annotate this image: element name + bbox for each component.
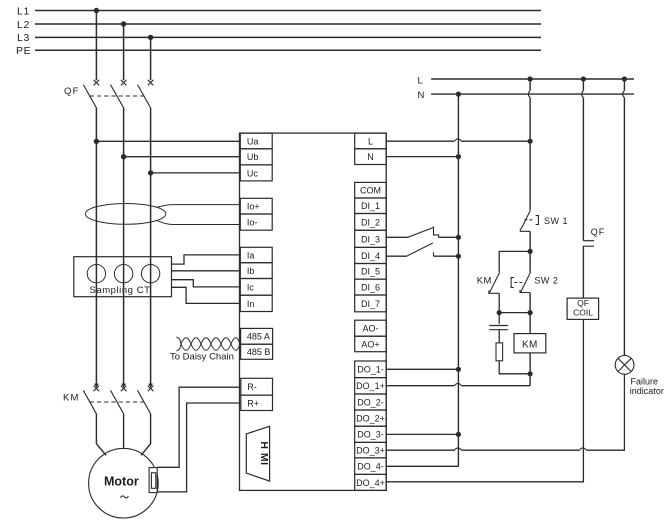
CT ring phase B	[114, 265, 132, 283]
terminal DI_5	[355, 264, 387, 280]
switch on DI_4 (NO contact)	[407, 243, 434, 256]
svg-text:L2: L2	[17, 19, 30, 31]
KM pole 3 blade	[138, 390, 151, 414]
terminal COM	[355, 182, 387, 198]
junction dot L to rail C	[581, 76, 586, 81]
contact KM auxiliary (NO)	[489, 272, 500, 293]
arrowhead phase C	[148, 384, 153, 388]
wire R- to thermistor	[157, 387, 240, 467]
terminal DO_3-	[355, 426, 387, 442]
svg-text:SW 1: SW 1	[544, 216, 568, 226]
thermistor outer box on motor	[149, 468, 157, 493]
KM pole 3 contact X	[148, 386, 154, 392]
wire CT out to Ia	[172, 255, 241, 264]
svg-text:R-: R-	[247, 382, 256, 392]
svg-text:PE: PE	[16, 45, 31, 57]
svg-text:To Daisy Chain: To Daisy Chain	[170, 352, 234, 363]
wire L terminal to rail B (hops rail A)	[386, 139, 530, 141]
wire KM latch branch bottom	[498, 293, 500, 312]
CT ring phase A	[87, 265, 105, 283]
contactor KM (3-pole)	[83, 386, 153, 414]
wire DO_4- to rail A end	[386, 465, 458, 467]
svg-text:KM: KM	[522, 339, 538, 350]
CT ring phase C	[141, 265, 159, 283]
svg-text:H MI: H MI	[258, 441, 270, 465]
svg-text:KM: KM	[477, 276, 492, 287]
protection relay main box U1	[240, 133, 387, 490]
terminal L	[355, 133, 387, 149]
node L1	[17, 5, 541, 17]
KM pole 2 blade	[111, 390, 124, 414]
wire L2	[35, 23, 541, 25]
wire DO_3+ to failure lamp (hops rail A and rail C)	[386, 374, 624, 450]
wire to capacitor	[498, 313, 500, 324]
wire through CT phase C	[150, 257, 152, 297]
junction dot rail B / L terminal wire	[528, 139, 533, 144]
wire capacitor to resistor	[498, 330, 500, 343]
terminal DO_4+	[355, 474, 387, 490]
wire through CT phase B	[123, 257, 125, 297]
contact QF auxiliary	[583, 241, 594, 247]
pushbutton SW1 (NC)	[520, 210, 538, 231]
wire CT out to Ib	[172, 270, 241, 272]
wire rail A (N rail)	[457, 94, 459, 466]
svg-text:DO_2-: DO_2-	[357, 397, 384, 407]
svg-text:AO-: AO-	[362, 324, 378, 334]
terminal Uc	[240, 165, 272, 181]
wire CT down phase A to KM	[95, 297, 97, 385]
resistor R1 (RC snubber)	[496, 343, 503, 361]
wire L1 drop to QF pole 1	[95, 11, 97, 81]
junction dot rail A / DI_3	[456, 235, 461, 240]
svg-text:N: N	[418, 90, 425, 101]
svg-text:Ic: Ic	[247, 282, 255, 292]
svg-text:485 B: 485 B	[247, 347, 271, 357]
HMI connector	[246, 426, 269, 481]
wire QF contact to QF coil	[582, 246, 584, 298]
wire QF pole 3 down to CT	[150, 108, 152, 257]
wire R+ to thermistor	[157, 403, 240, 492]
wire parallel node bar	[499, 312, 530, 314]
junction dot L3 tap	[148, 35, 153, 40]
terminal DI_4	[355, 247, 387, 263]
svg-text:L: L	[418, 76, 423, 87]
junction dot L1 tap	[94, 8, 99, 13]
svg-text:Io-: Io-	[247, 218, 258, 228]
wire L control line	[431, 78, 634, 80]
terminal DO_1+	[355, 378, 387, 394]
junction dot Ua tap	[94, 139, 99, 144]
node L3	[17, 32, 541, 44]
svg-text:In: In	[247, 299, 255, 309]
svg-text:Io+: Io+	[247, 202, 260, 212]
KM linkage dashed bar	[90, 401, 144, 403]
junction dot rail B / KM branch	[528, 249, 533, 254]
node N (control)	[418, 90, 635, 101]
wire L3 drop to QF pole 3	[150, 37, 152, 80]
wire CT out to Ic	[172, 280, 241, 287]
wire N control line	[431, 93, 634, 95]
terminal Ia	[240, 247, 272, 262]
wire through CT phase A	[95, 257, 97, 297]
terminal DO_2-	[355, 394, 387, 410]
svg-text:DI_6: DI_6	[361, 283, 380, 293]
capacitor C1 (RC snubber)	[489, 326, 508, 330]
junction dot rail A / N terminal	[456, 154, 461, 159]
terminal Io+	[240, 198, 272, 214]
svg-text:AO+: AO+	[361, 339, 379, 349]
sampling CT box	[74, 257, 172, 297]
junction dot L to rail D	[622, 76, 627, 81]
wire resistor to bottom node	[499, 361, 530, 374]
junction dot parallel right	[528, 310, 533, 315]
terminal DI_7	[355, 295, 387, 312]
wire CT out to In	[172, 287, 241, 303]
zero-sequence CT toroid	[85, 204, 165, 225]
wire SW2 to parallel node	[529, 293, 531, 313]
svg-text:Uc: Uc	[247, 168, 258, 178]
svg-text:L3: L3	[17, 32, 30, 44]
wire DO_4+ to QF coil rail	[386, 319, 583, 481]
terminal DI_2	[355, 214, 387, 231]
wire DO_1- to rail A	[386, 368, 458, 370]
terminal DO_4-	[355, 458, 387, 475]
thermistor R body	[151, 473, 155, 489]
wire toroid to Io-	[157, 220, 241, 224]
junction dot L2 tap	[121, 21, 126, 26]
wire DI_3 to switch	[386, 236, 408, 238]
wire rail D upper (lamp rail)	[623, 79, 625, 356]
wire KM latch branch top	[499, 251, 530, 272]
junction dot rail A / DI_4	[456, 254, 461, 259]
junction dot KM coil / RC bottom	[528, 371, 533, 376]
circuit breaker QF (3-pole)	[83, 80, 153, 108]
wire switch to rail A (DI_3)	[439, 236, 459, 238]
svg-text:QF: QF	[591, 227, 606, 237]
wire DO_3- to rail A	[386, 433, 458, 435]
wire QF pole 1 down to CT	[95, 108, 97, 257]
svg-text:COIL: COIL	[573, 308, 593, 318]
switch on DI_3 (NO contact)	[408, 226, 439, 237]
junction dot Uc tap	[148, 170, 153, 175]
wire L3	[35, 36, 541, 38]
svg-text:Ub: Ub	[247, 152, 259, 162]
QF pole 3 contact X	[148, 80, 154, 86]
junction dot rail A / DO_1-	[456, 367, 461, 372]
terminal 485B	[241, 344, 273, 359]
KM pole 2 contact X	[121, 386, 127, 392]
terminal 485A	[241, 328, 273, 344]
svg-text:DI_5: DI_5	[361, 267, 380, 277]
QF pole 1 contact X	[94, 80, 100, 86]
terminal Io-	[240, 214, 272, 230]
wire KM pole 2 to motor	[123, 414, 125, 449]
wire N terminal to rail A	[386, 156, 458, 158]
twisted pair to daisy chain	[177, 337, 241, 351]
terminal R+	[241, 395, 273, 410]
junction dot rail A / DO_3-	[456, 432, 461, 437]
svg-text:DO_4+: DO_4+	[356, 478, 385, 488]
wire CT down phase C to KM	[150, 297, 152, 385]
KM pole 1 blade	[83, 390, 96, 414]
junction dot L to rail B	[528, 76, 533, 81]
node PE	[16, 45, 541, 57]
terminal DO_1-	[355, 361, 387, 378]
svg-text:DI_7: DI_7	[361, 299, 380, 309]
wire switch to rail A (DI_4)	[434, 255, 459, 257]
svg-text:DO_2+: DO_2+	[356, 414, 385, 424]
svg-text:Motor: Motor	[104, 475, 139, 489]
coil KM contactor	[514, 313, 546, 353]
node L2	[17, 19, 541, 31]
wire toroid to Io+	[157, 205, 241, 208]
svg-text:485 A: 485 A	[247, 332, 270, 342]
terminal In	[240, 295, 272, 311]
terminal Ub	[240, 149, 272, 165]
wire Ub tap to terminal	[124, 156, 241, 158]
terminal Ua	[240, 133, 272, 149]
wire rail C upper (QF rail)	[582, 79, 584, 241]
wire QF pole 2 down to CT	[123, 108, 125, 257]
svg-text:QF: QF	[64, 86, 80, 97]
junction dot N to rail A	[456, 92, 461, 97]
terminal DO_3+	[355, 442, 387, 458]
svg-text:KM: KM	[63, 393, 80, 404]
pushbutton SW2 (NO)	[511, 272, 530, 293]
svg-text:Ib: Ib	[247, 266, 255, 276]
svg-text:DI_3: DI_3	[361, 234, 380, 244]
terminal AO-	[355, 320, 387, 336]
wire Uc tap to terminal	[151, 172, 241, 174]
QF linkage dashed bar	[90, 95, 144, 97]
QF pole 2 blade	[111, 85, 124, 108]
wire KM coil to DO_1+ node	[529, 353, 531, 386]
svg-text:indicator: indicator	[630, 386, 664, 396]
terminal AO+	[355, 336, 387, 352]
svg-text:DO_3+: DO_3+	[356, 446, 385, 456]
wire CT down phase B to KM	[123, 297, 125, 385]
svg-text:DO_4-: DO_4-	[357, 462, 384, 472]
wire DO_1+ to rail B (hops rail A)	[386, 383, 530, 385]
arrowhead phase B	[121, 384, 126, 388]
svg-text:Ia: Ia	[247, 250, 255, 260]
terminal DI_1	[355, 198, 387, 214]
svg-text:L1: L1	[17, 5, 30, 17]
QF pole 2 contact X	[121, 80, 127, 86]
wire KM pole 3 to motor	[141, 414, 151, 456]
wire PE	[35, 49, 541, 51]
svg-text:DI_4: DI_4	[361, 251, 380, 261]
svg-text:DO_1+: DO_1+	[356, 381, 385, 391]
svg-text:DI_1: DI_1	[361, 201, 380, 211]
terminal DI_3	[355, 230, 387, 247]
wire Ua tap to terminal	[96, 140, 240, 142]
svg-text:Sampling CT: Sampling CT	[90, 285, 151, 296]
wire L2 drop to QF pole 2	[123, 24, 125, 80]
wire DI_4 to switch	[386, 255, 406, 257]
wire L1	[35, 10, 541, 12]
motor M	[89, 448, 159, 518]
KM pole 1 contact X	[94, 386, 100, 392]
svg-text:DO_3-: DO_3-	[357, 430, 384, 440]
terminal DO_2+	[355, 410, 387, 426]
node L (control)	[418, 76, 635, 87]
svg-text:DI_2: DI_2	[361, 217, 380, 227]
svg-text:DO_1-: DO_1-	[357, 365, 384, 375]
wire rail B mid	[529, 231, 531, 272]
coil QF COIL	[567, 298, 599, 319]
terminal DI_6	[355, 279, 387, 295]
svg-text:L: L	[368, 136, 373, 146]
QF pole 3 blade	[138, 85, 151, 108]
arrowhead phase A	[94, 384, 99, 388]
svg-text:N: N	[367, 152, 374, 162]
terminal R-	[241, 378, 273, 395]
wire KM pole 1 to motor	[96, 414, 106, 456]
junction dot parallel left	[497, 310, 502, 315]
lamp failure indicator	[615, 356, 634, 375]
svg-text:COM: COM	[360, 186, 381, 196]
QF pole 1 blade	[83, 85, 96, 108]
wire rail B upper	[528, 79, 530, 210]
svg-text:R+: R+	[247, 398, 259, 408]
terminal Ic	[240, 279, 272, 296]
junction dot Ub tap	[121, 154, 126, 159]
motor AC tilde	[120, 496, 128, 498]
terminal N	[355, 149, 387, 165]
terminal Ib	[240, 263, 272, 279]
svg-text:SW 2: SW 2	[534, 276, 558, 286]
svg-text:Ua: Ua	[247, 136, 259, 146]
